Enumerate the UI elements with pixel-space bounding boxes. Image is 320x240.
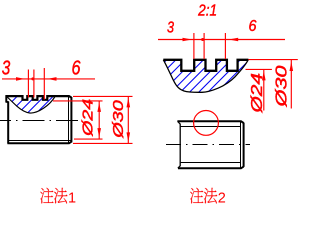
extension line phi24 bottom (view 1): [74, 138, 103, 140]
arrow phi24 down (view 1): [97, 128, 101, 138]
arrow phi24 up (detail view): [262, 71, 266, 81]
arrow left of dimension 3 (view 1): [16, 77, 25, 81]
caption zhu (view 1 label): [40, 188, 53, 204]
detail boundary curve (detail view): [163, 59, 248, 92]
chamfer line right end (view 2): [240, 122, 242, 168]
dot terminator of dimension 3 (view 1): [31, 77, 34, 80]
svg-text:6: 6: [72, 58, 82, 80]
svg-text:2: 2: [218, 190, 226, 206]
right end edge (view 2): [243, 123, 245, 167]
extension line 3 (view 1 pitch): [43, 68, 45, 100]
svg-text:Ø24: Ø24: [249, 73, 266, 114]
svg-text:3: 3: [2, 58, 11, 80]
arrow phi30 up (detail view): [290, 62, 294, 72]
caption zhu (view 2 label): [190, 188, 203, 204]
arrow left of dimension 3 (detail view): [183, 38, 192, 42]
extension line phi24 top (view 1): [53, 100, 103, 102]
dimension line phi24 (view 1): [98, 101, 100, 139]
svg-text:3: 3: [167, 20, 174, 37]
extension line 3 (detail pitch): [224, 33, 226, 59]
svg-text:Ø24: Ø24: [79, 99, 96, 137]
arrow right of dimension 6 (detail view): [229, 38, 239, 42]
left end edge (view 2): [179, 124, 181, 166]
serration root thin line top (view 2): [181, 126, 241, 128]
dimension line for 3 and 6 (view 1): [2, 78, 95, 80]
svg-text:Ø30: Ø30: [274, 65, 291, 107]
svg-text:6: 6: [249, 18, 257, 35]
extension line 2 (detail tooth edge): [203, 33, 205, 59]
top outline edge (view 2): [177, 121, 243, 123]
svg-text:Ø30: Ø30: [110, 99, 127, 139]
serrated top profile (view 1 teeth): [6, 96, 72, 100]
center line (view 1 axis): [0, 120, 79, 122]
serration root thin line bottom (view 2): [181, 162, 241, 164]
svg-text:2:1: 2:1: [197, 3, 217, 20]
section hatching (view 1 local section): [0, 93, 57, 118]
dimension line phi30 (detail view): [290, 60, 292, 109]
arrow phi30 down (view 1): [127, 132, 131, 142]
extension line 2 (view 1 tooth edge): [33, 70, 35, 98]
serrated profile (detail view teeth): [163, 60, 248, 71]
caption fa (view 2 label): [204, 188, 217, 204]
chamfer line (view 1 right end): [68, 97, 70, 143]
svg-text:1: 1: [68, 190, 76, 206]
chamfer tick bottom-left (view 2): [178, 166, 181, 169]
left end face edge with step (view 1): [6, 95, 8, 143]
extension line 1 (detail tooth edge): [193, 33, 195, 59]
bottom outline edge (view 1): [7, 142, 71, 144]
bottom outline edge (view 2): [178, 167, 244, 169]
extension line phi24 (detail view): [246, 68, 272, 70]
arrow right of dimension 6 (view 1): [47, 77, 56, 81]
extension line 1 (view 1 tooth edge): [27, 70, 29, 98]
dimension line phi30 (view 1): [127, 96, 129, 143]
detail indication circle (view 2): [194, 111, 219, 136]
extension line phi30 bottom (view 1): [73, 142, 133, 144]
center line (view 2 axis): [166, 144, 250, 146]
dot terminator of dimension 3 (detail view): [201, 38, 204, 41]
arrow phi24 up (view 1): [97, 102, 101, 112]
serration root thin line (view 1 bottom): [8, 140, 71, 142]
caption fa (view 1 label): [54, 188, 67, 204]
extension line phi30 top (view 1): [73, 95, 133, 97]
chamfer tick top-left (view 2): [178, 121, 181, 124]
section hatching (detail view): [131, 55, 264, 96]
local-section boundary wavy line (view 1): [7, 96, 55, 113]
right end edge (view 1): [70, 97, 72, 142]
extension line phi30 (detail view): [248, 59, 297, 61]
dimension line for 3 and 6 (detail view): [158, 39, 285, 41]
dimension line phi24 (detail view): [263, 69, 265, 110]
arrow phi30 up (view 1): [127, 98, 131, 108]
